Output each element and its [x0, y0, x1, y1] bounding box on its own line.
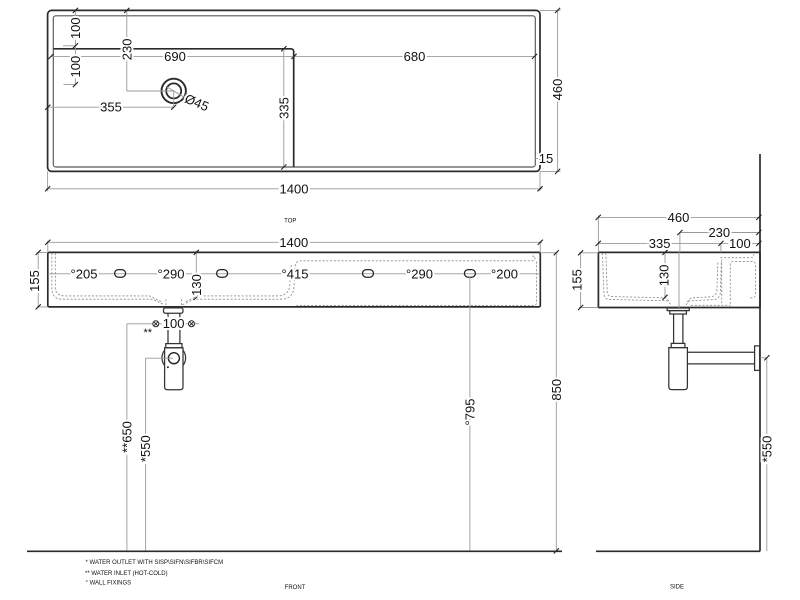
svg-text:355: 355 [100, 100, 122, 115]
svg-text:155: 155 [570, 269, 585, 291]
svg-text:100: 100 [68, 17, 83, 39]
svg-text:°795: °795 [462, 399, 477, 426]
svg-text:°290: °290 [406, 266, 433, 281]
svg-text:1400: 1400 [280, 181, 309, 196]
svg-text:Ø45: Ø45 [183, 91, 211, 114]
svg-text:** WATER INLET (HOT-COLD): ** WATER INLET (HOT-COLD) [85, 571, 168, 577]
svg-text:°205: °205 [71, 266, 98, 281]
svg-text:SIDE: SIDE [670, 585, 684, 591]
svg-text:°290: °290 [158, 266, 185, 281]
svg-text:**650: **650 [119, 421, 134, 453]
svg-text:460: 460 [550, 79, 565, 101]
svg-text:100: 100 [163, 316, 185, 331]
svg-text:155: 155 [27, 270, 42, 292]
svg-text:1400: 1400 [279, 235, 308, 250]
svg-text:460: 460 [668, 210, 690, 225]
svg-text:230: 230 [708, 225, 730, 240]
svg-text:130: 130 [189, 274, 204, 296]
svg-text:335: 335 [649, 236, 671, 251]
svg-text:100: 100 [729, 236, 751, 251]
svg-text:FRONT: FRONT [285, 585, 306, 591]
svg-text:* WATER OUTLET WITH SISP\SIFN: * WATER OUTLET WITH SISP\SIFN\SIFBR\SIFC… [86, 560, 224, 566]
svg-text:100: 100 [68, 56, 83, 78]
svg-text:**: ** [144, 327, 153, 339]
svg-text:850: 850 [549, 379, 564, 401]
svg-text:TOP: TOP [284, 219, 296, 225]
svg-text:15: 15 [539, 151, 553, 166]
svg-text:°200: °200 [491, 266, 518, 281]
svg-text:*550: *550 [759, 436, 774, 463]
svg-text:°415: °415 [282, 266, 309, 281]
svg-text:*550: *550 [138, 435, 153, 462]
svg-text:° WALL FIXINGS: ° WALL FIXINGS [86, 581, 132, 587]
svg-text:690: 690 [164, 49, 186, 64]
svg-text:130: 130 [656, 265, 671, 287]
svg-text:230: 230 [119, 39, 134, 61]
svg-text:680: 680 [404, 49, 426, 64]
svg-text:335: 335 [277, 97, 292, 119]
